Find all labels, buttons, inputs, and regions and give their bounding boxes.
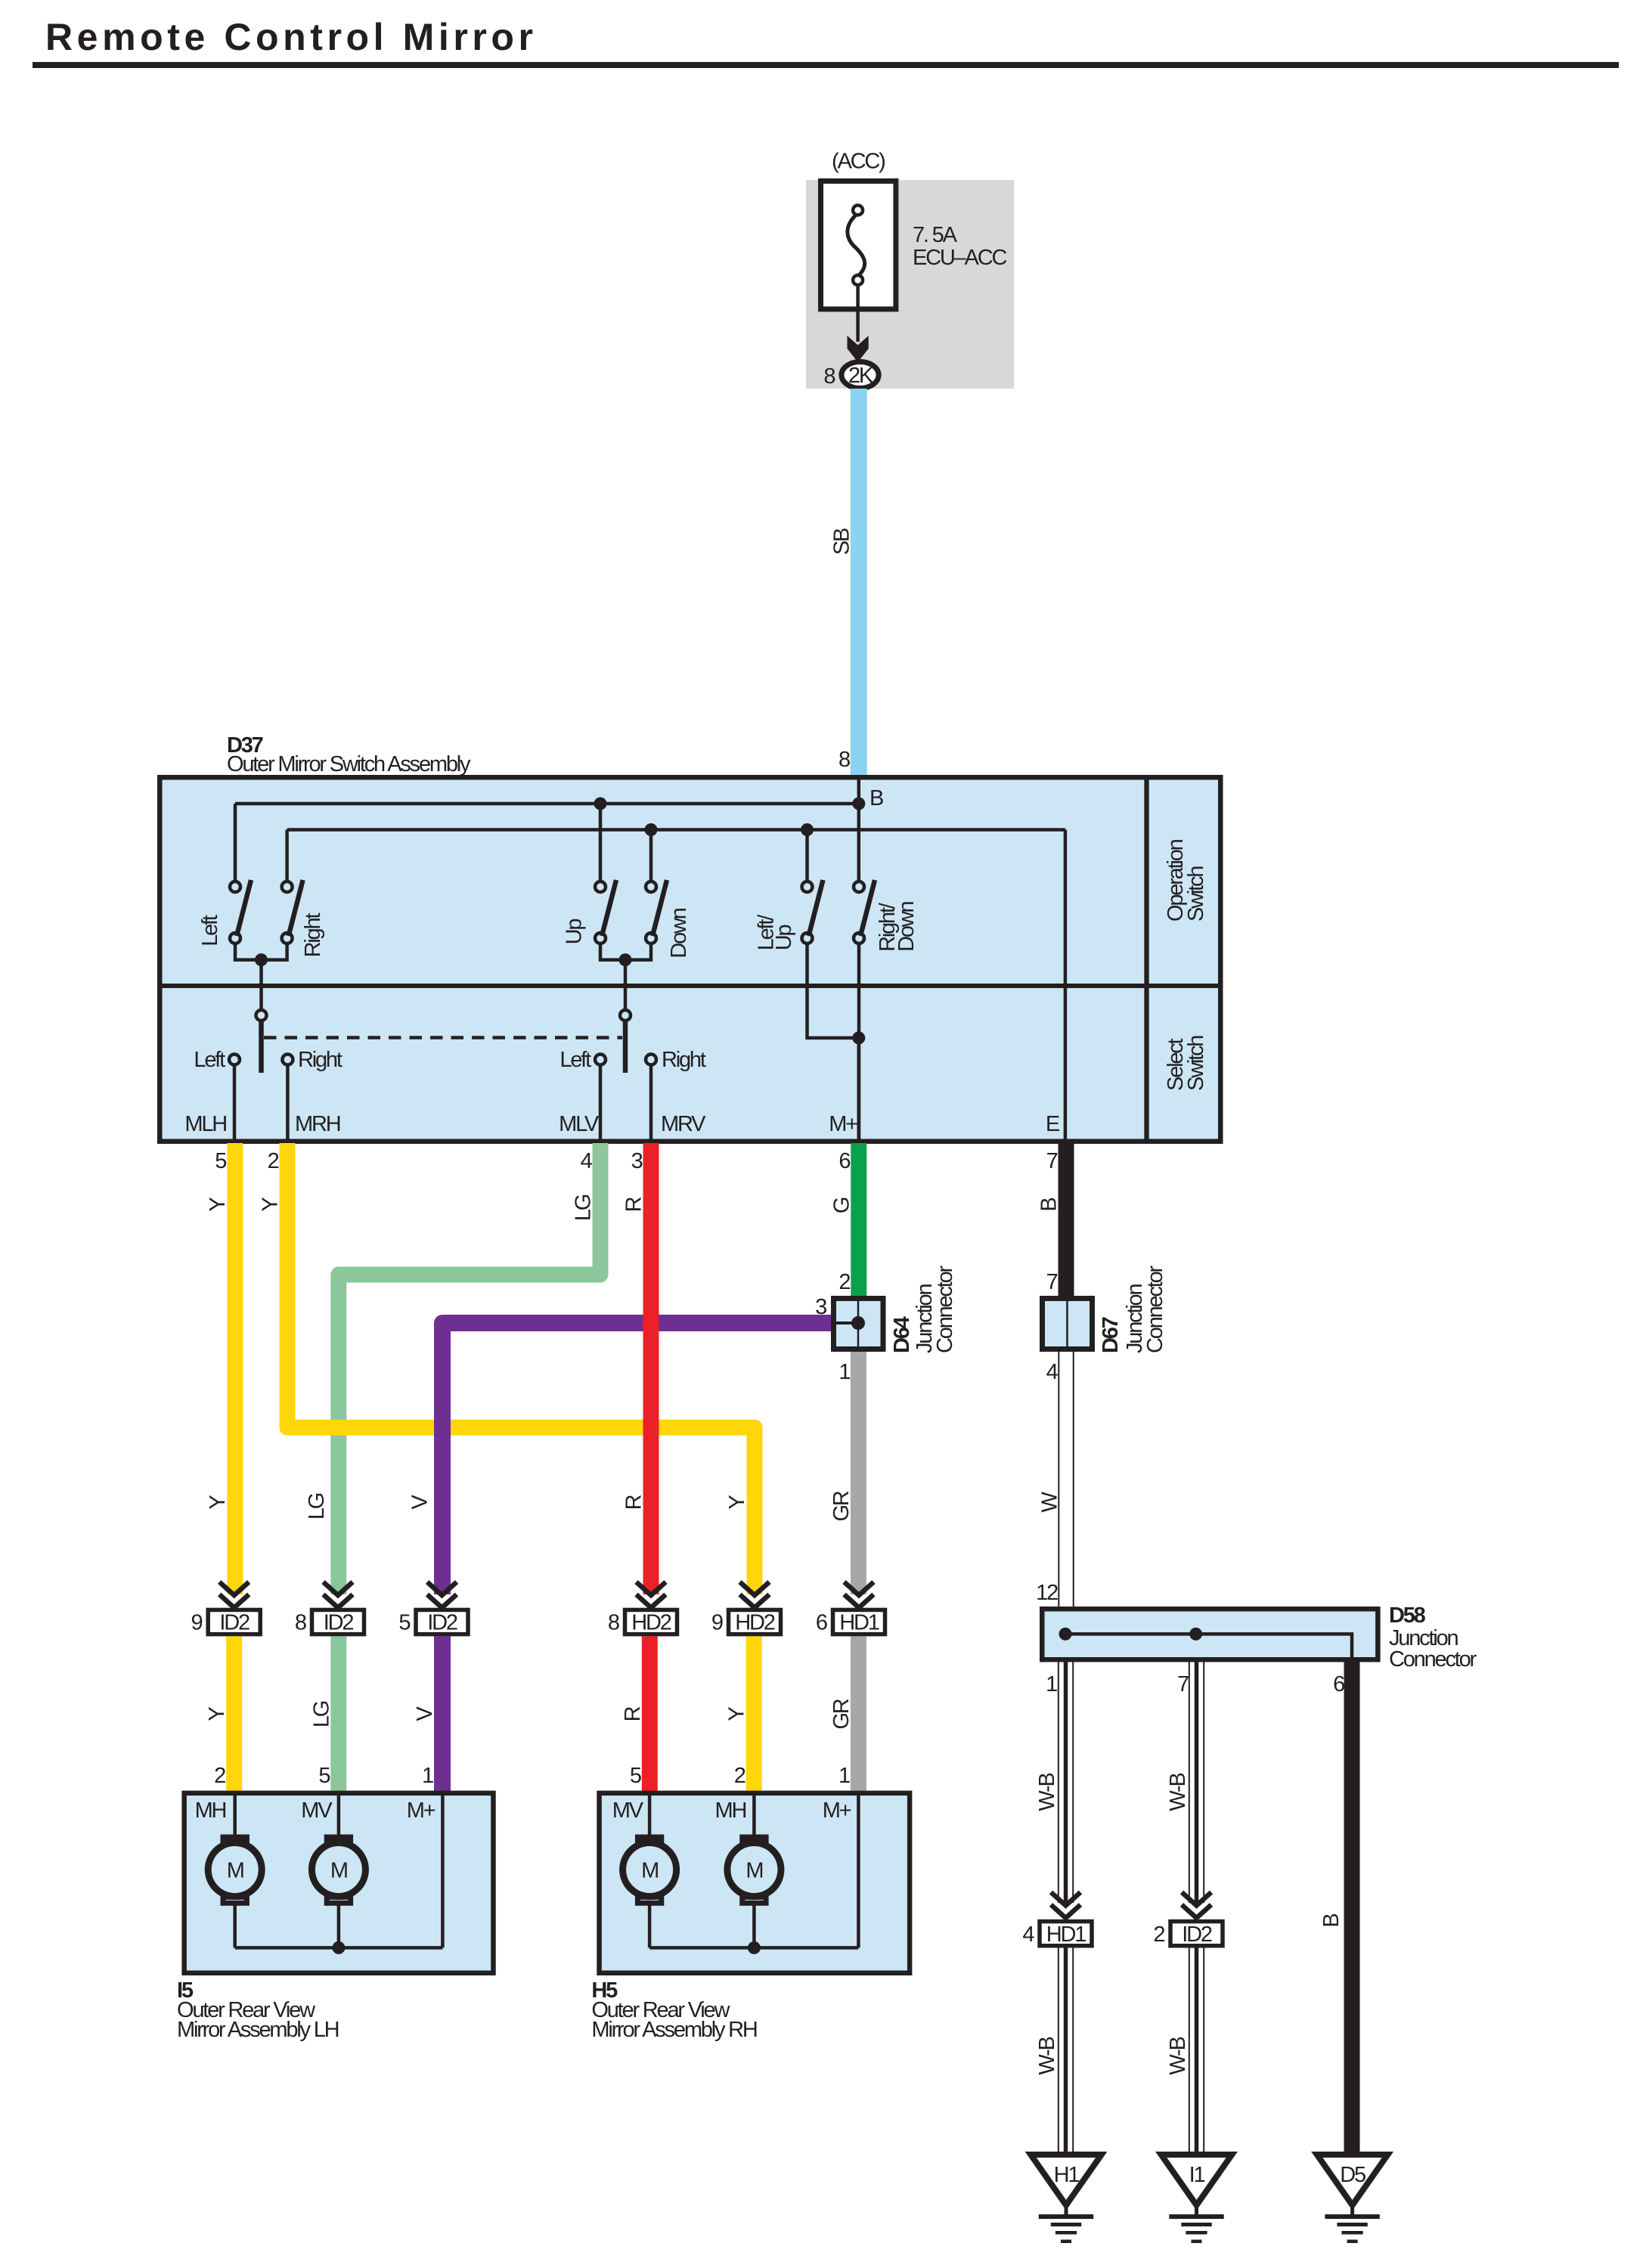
svg-text:MH: MH [715, 1799, 746, 1823]
svg-text:Switch: Switch [1184, 1036, 1208, 1091]
svg-text:Up: Up [563, 919, 587, 945]
svg-text:GR: GR [829, 1699, 854, 1729]
in-line connector 9 ID2 [191, 1610, 261, 1634]
fuse terminal circle bottom [853, 275, 863, 285]
wire R from MRV to HD2 [643, 1143, 659, 1594]
I5 wire MH to motor [233, 1793, 237, 1837]
svg-text:2: 2 [838, 1270, 850, 1294]
D58 junction dot 1 [1059, 1628, 1072, 1641]
svg-text:HD2: HD2 [631, 1611, 671, 1635]
svg-text:D67: D67 [1099, 1317, 1123, 1353]
wire Right/Down contact to M+ pin [857, 943, 861, 1142]
wire W-B from HD1 to ground H1 [1059, 1947, 1073, 2155]
svg-text:5: 5 [318, 1764, 330, 1788]
wire V to I5 M+ [434, 1636, 451, 1793]
wire select Right2 to MRV pin [649, 1065, 653, 1142]
H5 wire MH to motor [752, 1793, 756, 1837]
wire bus1 down to Up contact [599, 804, 603, 881]
bus wire 2 [287, 828, 1065, 832]
select pivot circle 2 [620, 1010, 631, 1021]
svg-text:2: 2 [734, 1764, 746, 1788]
component H5 Outer Rear View Mirror Assembly RH box [600, 1793, 910, 1973]
svg-text:Y: Y [725, 1495, 749, 1510]
D67 cell divider [1066, 1301, 1068, 1349]
select contact Left 1 [229, 1055, 240, 1065]
svg-text:ID2: ID2 [324, 1611, 354, 1635]
connector arrows HD2 (8) [637, 1582, 666, 1608]
select lever 1 [259, 1021, 264, 1073]
svg-text:W-B: W-B [1166, 1774, 1190, 1811]
H5 bus junction dot [748, 1941, 761, 1954]
ground H1 [1031, 2155, 1102, 2243]
switch Right/Down contact bottom [854, 933, 864, 943]
in-line connector 9 HD2 [711, 1610, 781, 1634]
switch Right contact bottom [282, 933, 293, 943]
component I5 Outer Rear View Mirror Assembly LH box [184, 1793, 494, 1973]
svg-text:M: M [641, 1859, 658, 1883]
wire SB (sky blue) fuse to D37 pin 8 [851, 389, 867, 775]
svg-text:5: 5 [630, 1764, 641, 1788]
in-line connector 6 HD1 [816, 1610, 885, 1634]
svg-text:8: 8 [823, 364, 835, 389]
ground I1 [1161, 2155, 1232, 2243]
svg-text:ID2: ID2 [1182, 1923, 1212, 1947]
svg-text:6: 6 [816, 1611, 827, 1635]
svg-text:MH: MH [195, 1799, 226, 1823]
in-line connector 8 HD2 [608, 1610, 677, 1634]
svg-text:Connector: Connector [1143, 1265, 1167, 1353]
I5 vertical motor M [312, 1837, 365, 1903]
svg-text:8: 8 [838, 748, 850, 772]
junction dot M+ [852, 1031, 865, 1044]
svg-text:2: 2 [268, 1149, 279, 1173]
connector arrows HD1 (6) [845, 1582, 874, 1608]
component D37 Outer Mirror Switch Assembly box [160, 777, 1220, 1142]
fuse element symbol [848, 215, 865, 275]
H5 wire motor1 to bus [648, 1903, 652, 1947]
svg-text:E: E [1046, 1112, 1060, 1136]
svg-text:R: R [621, 1706, 645, 1721]
D64 junction dot [851, 1316, 865, 1330]
wire fuse to arrow [856, 285, 860, 342]
svg-text:Y: Y [725, 1707, 749, 1721]
svg-text:Right: Right [301, 913, 325, 958]
svg-text:W: W [1038, 1492, 1062, 1513]
wire LG to I5 MV [330, 1636, 346, 1793]
svg-text:9: 9 [191, 1611, 203, 1635]
svg-text:HD1: HD1 [839, 1611, 879, 1635]
switch Right lever [289, 880, 303, 936]
svg-text:W-B: W-B [1035, 2037, 1059, 2075]
switch Down contact top [646, 881, 656, 892]
svg-text:I1: I1 [1189, 2163, 1205, 2187]
H5 horizontal motor M [727, 1837, 781, 1903]
junction dot pair1 [255, 953, 268, 966]
connector arrows ID2 (9) [219, 1582, 249, 1608]
in-line connector 5 ID2 [398, 1610, 468, 1634]
H5 wire MV to motor [648, 1793, 652, 1837]
H5 wire M+ to bus [857, 1793, 860, 1947]
svg-text:1: 1 [1046, 1672, 1057, 1696]
svg-text:MV: MV [612, 1799, 644, 1823]
switch Up contact bottom [595, 933, 606, 943]
svg-text:V: V [408, 1495, 432, 1510]
svg-text:Y: Y [259, 1198, 283, 1212]
wire pair1 to select pivot [259, 960, 263, 1010]
svg-text:G: G [829, 1198, 854, 1213]
switch Right contact top [282, 881, 293, 892]
svg-text:1: 1 [422, 1764, 433, 1788]
svg-text:MRH: MRH [295, 1112, 340, 1136]
svg-text:M: M [330, 1859, 347, 1883]
D64 internal wire [834, 1321, 859, 1325]
svg-text:SB: SB [830, 528, 854, 555]
select pivot circle 1 [256, 1010, 267, 1021]
svg-text:12: 12 [1036, 1581, 1058, 1605]
svg-text:Y: Y [206, 1495, 230, 1510]
select contact Right 2 [646, 1055, 656, 1065]
svg-text:M: M [227, 1859, 243, 1883]
svg-text:3: 3 [815, 1295, 826, 1319]
svg-text:Outer Mirror Switch Assembly: Outer Mirror Switch Assembly [227, 752, 471, 776]
svg-text:R: R [622, 1495, 646, 1510]
wire select Left1 to MLH pin [233, 1065, 237, 1142]
svg-text:3: 3 [631, 1149, 643, 1173]
svg-text:LG: LG [572, 1194, 596, 1221]
svg-text:Y: Y [205, 1707, 229, 1721]
svg-text:LG: LG [305, 1493, 329, 1520]
wire bus1 down to Left contact [234, 804, 237, 881]
svg-text:B: B [869, 786, 883, 810]
svg-text:HD1: HD1 [1046, 1923, 1086, 1947]
select contact Left 2 [595, 1055, 606, 1065]
svg-text:HD2: HD2 [735, 1611, 774, 1635]
svg-text:Left: Left [560, 1048, 591, 1072]
wire select Left2 to MLV pin [599, 1065, 603, 1142]
connector arrows HD1 (4) [1051, 1892, 1080, 1918]
svg-text:4: 4 [581, 1149, 593, 1173]
svg-text:M+: M+ [407, 1799, 436, 1823]
wire W-B from D58 pin1 to HD1 [1059, 1662, 1073, 1904]
svg-text:M: M [746, 1859, 762, 1883]
svg-text:MLV: MLV [559, 1112, 600, 1136]
wire GR from D64 to HD1 [851, 1352, 866, 1594]
svg-text:2: 2 [1153, 1923, 1164, 1947]
svg-text:V: V [413, 1706, 437, 1721]
svg-text:B: B [1037, 1198, 1062, 1212]
title underline rule [33, 62, 1619, 68]
wire W from D67 to D58 [1059, 1352, 1073, 1606]
connector oval 2K [842, 362, 879, 389]
svg-text:D5: D5 [1340, 2163, 1365, 2187]
switch Left/Up lever [809, 880, 823, 936]
svg-text:H1: H1 [1054, 2163, 1080, 2187]
select link dashed line [264, 1036, 622, 1039]
wire Left/Up contact to M+ junction [808, 943, 859, 1038]
wire bus2 down to Down contact [649, 830, 653, 882]
junction dot node B [852, 798, 865, 810]
D58 junction dot 2 [1189, 1628, 1202, 1641]
svg-text:Switch: Switch [1184, 866, 1208, 922]
wire W-B from ID2 to ground I1 [1189, 1947, 1204, 2155]
svg-text:7: 7 [1046, 1149, 1058, 1173]
D64 cell divider [857, 1301, 860, 1349]
svg-text:D58: D58 [1389, 1603, 1426, 1628]
wire W-B from D58 pin7 to ID2 [1189, 1662, 1204, 1904]
I5 horizontal motor M [208, 1837, 262, 1903]
wire Y from MRH to HD2 [287, 1143, 755, 1594]
svg-text:Connector: Connector [1389, 1647, 1477, 1672]
svg-text:Left: Left [198, 915, 222, 947]
svg-text:M+: M+ [829, 1112, 857, 1136]
D58 internal wire [1065, 1634, 1352, 1659]
svg-text:ID2: ID2 [219, 1611, 250, 1635]
svg-text:W-B: W-B [1035, 1774, 1059, 1811]
svg-text:7: 7 [1177, 1672, 1189, 1696]
wire join pair Left/Right [235, 943, 287, 960]
svg-text:MLH: MLH [184, 1112, 226, 1136]
connector arrows HD2 (9) [740, 1582, 770, 1608]
svg-text:7. 5A: 7. 5A [913, 223, 958, 247]
junction connector D64 box [834, 1299, 884, 1349]
svg-text:5: 5 [398, 1611, 410, 1635]
wire bus2 down to Right contact [285, 830, 289, 882]
wire Y to I5 MH [226, 1636, 242, 1793]
svg-text:ID2: ID2 [427, 1611, 457, 1635]
H5 common bus wire [649, 1946, 858, 1950]
I5 common bus wire [235, 1946, 443, 1950]
svg-text:Mirror Assembly RH: Mirror Assembly RH [591, 2018, 756, 2042]
in-line connector 4 HD1 [1022, 1922, 1092, 1947]
junction connector D58 box [1042, 1609, 1378, 1659]
svg-text:Y: Y [206, 1198, 230, 1212]
svg-text:(ACC): (ACC) [832, 150, 885, 174]
junction dot bus2/Down [645, 823, 658, 836]
switch Left contact top [230, 881, 240, 892]
svg-text:1: 1 [838, 1360, 850, 1384]
svg-text:5: 5 [215, 1149, 226, 1173]
wire join pair Up/Down [600, 943, 651, 960]
svg-text:6: 6 [838, 1149, 850, 1173]
H5 wire motor2 to bus [752, 1903, 756, 1947]
select contact Right 1 [282, 1055, 293, 1065]
arrowhead into connector 2K [848, 336, 869, 362]
connector arrows ID2 (2) [1182, 1892, 1211, 1918]
svg-text:Down: Down [667, 908, 691, 958]
svg-text:2: 2 [214, 1764, 225, 1788]
I5 wire motor2 to bus [337, 1903, 341, 1947]
wire Y from MLH to ID2 [227, 1143, 243, 1594]
H5 vertical motor M [623, 1837, 677, 1903]
svg-text:7: 7 [1046, 1270, 1058, 1294]
I5 bus junction dot [332, 1941, 345, 1954]
switch Down lever [653, 880, 667, 936]
wire LG from MLV to ID2 [339, 1143, 600, 1594]
svg-text:9: 9 [711, 1611, 723, 1635]
connector arrows ID2 (5) [427, 1582, 457, 1608]
switch Right/Down lever [860, 880, 875, 936]
wire bus2 to E pin [1064, 830, 1068, 1142]
junction dot bus1/Up [594, 798, 607, 810]
svg-text:6: 6 [1333, 1672, 1344, 1696]
wire B from D58 pin6 to ground D5 [1344, 1662, 1360, 2155]
gray power-source block [806, 180, 1014, 389]
fuse ECU-ACC box [821, 181, 896, 309]
svg-text:M+: M+ [823, 1799, 851, 1823]
svg-text:W-B: W-B [1166, 2037, 1190, 2075]
switch Right/Down contact top [854, 881, 864, 892]
wire M+ junction to pin [857, 1038, 861, 1142]
D37 label column separator [1144, 777, 1148, 1142]
svg-text:B: B [1319, 1914, 1344, 1928]
svg-text:1: 1 [838, 1764, 850, 1788]
in-line connector 8 ID2 [295, 1610, 364, 1634]
wire SB entry down to bus B / Right-Down contact [857, 777, 861, 881]
svg-text:Right: Right [662, 1048, 706, 1072]
wire V from D64 to ID2 [442, 1323, 831, 1594]
svg-text:Left: Left [194, 1048, 225, 1072]
switch Left/Up contact bottom [802, 933, 813, 943]
switch Up contact top [595, 881, 606, 892]
svg-text:8: 8 [295, 1611, 306, 1635]
svg-text:MV: MV [301, 1799, 333, 1823]
ground D5 [1317, 2155, 1388, 2243]
svg-text:Remote Control Mirror: Remote Control Mirror [45, 16, 533, 58]
select lever 2 [623, 1021, 628, 1073]
junction connector D67 box [1043, 1299, 1093, 1349]
svg-text:Mirror Assembly LH: Mirror Assembly LH [177, 2018, 339, 2042]
switch Left lever [237, 880, 251, 936]
wire select Right1 to MRH pin [286, 1065, 290, 1142]
wire bus2 down to Left/Up contact [805, 830, 809, 882]
in-line connector 2 ID2 [1153, 1922, 1223, 1947]
svg-text:Right: Right [298, 1048, 343, 1072]
I5 wire motor1 to bus [233, 1903, 237, 1947]
svg-text:4: 4 [1046, 1360, 1059, 1384]
wire Y to H5 MH [746, 1636, 762, 1793]
bus wire 1 (B) [235, 802, 859, 806]
D37 divider operation/select [160, 984, 1220, 988]
switch Down contact bottom [646, 933, 656, 943]
svg-text:MRV: MRV [661, 1112, 706, 1136]
switch Left contact bottom [230, 933, 240, 943]
wire pair2 to select pivot [624, 960, 628, 1010]
junction dot bus2/LeftUp [801, 823, 814, 836]
connector arrows ID2 (8) [324, 1582, 353, 1608]
svg-text:LG: LG [310, 1701, 334, 1727]
svg-text:GR: GR [829, 1491, 854, 1521]
svg-text:Up: Up [772, 925, 796, 951]
wire GR to H5 M+ [851, 1636, 866, 1793]
svg-text:4: 4 [1022, 1923, 1034, 1947]
wire B from E to D67 [1059, 1143, 1074, 1296]
svg-text:D64: D64 [890, 1316, 914, 1353]
switch Left/Up contact top [802, 881, 813, 892]
wire G from M+ to D64 [851, 1143, 866, 1296]
fuse terminal circle top [853, 206, 863, 215]
I5 wire MV to motor [337, 1793, 341, 1837]
wire R to H5 MV [642, 1636, 658, 1793]
svg-text:8: 8 [608, 1611, 619, 1635]
switch Up lever [602, 880, 616, 936]
I5 wire M+ to bus [441, 1793, 445, 1947]
svg-text:Down: Down [894, 901, 919, 951]
svg-text:Connector: Connector [933, 1265, 957, 1353]
junction dot pair2 [619, 953, 632, 966]
svg-text:ECU–ACC: ECU–ACC [913, 246, 1006, 270]
svg-text:R: R [622, 1197, 646, 1212]
svg-text:2K: 2K [848, 364, 874, 388]
